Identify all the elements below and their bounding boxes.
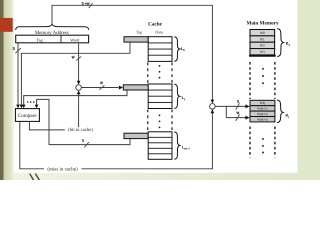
Bj row W4j+1: [250, 106, 275, 111]
svg-text:Cache: Cache: [148, 22, 163, 28]
node N2 circle: [210, 104, 216, 110]
svg-text:W(4j+2): W(4j+2): [257, 112, 267, 116]
brace L0: [174, 37, 180, 61]
svg-text:W(4j+1): W(4j+1): [257, 107, 267, 111]
B0 row W1: [250, 36, 275, 42]
left sage stripe: [4, 0, 14, 180]
dashed MM column upper: [250, 62, 275, 99]
divider tag/word: [60, 35, 62, 43]
dots MM upper: [262, 68, 264, 70]
left dark olive stripe: [0, 0, 4, 180]
B0 bottom bar: [249, 55, 276, 57]
slash s on Lm-1 wire: [84, 142, 89, 147]
slide background green: [0, 0, 320, 180]
svg-text:Data: Data: [155, 30, 163, 35]
wire word field down: [78, 43, 80, 81]
slash w bottom branch: [236, 115, 240, 121]
B0 row W3: [250, 49, 275, 55]
svg-text:j: j: [287, 115, 289, 119]
svg-text:j: j: [183, 97, 185, 101]
svg-text:W3: W3: [260, 50, 265, 54]
brace Bj: [277, 100, 283, 123]
Bj row W4j: [250, 100, 275, 105]
brace Lm-1: [174, 132, 180, 159]
B0 row W2: [250, 42, 275, 48]
arrow Lm-1 into compare: [35, 105, 39, 109]
dashed MM column lower: [250, 127, 275, 158]
B0 row W0: [250, 30, 275, 36]
slash w: [76, 56, 81, 60]
svg-text:Compare: Compare: [18, 113, 37, 119]
red accent square: [0, 18, 13, 32]
wire fork top branch: [226, 105, 245, 107]
Bj row W4j+2: [250, 111, 275, 116]
wire hit output: [29, 122, 64, 130]
arrow into node N1 top: [77, 81, 81, 85]
wire N2 to fork: [215, 106, 226, 117]
dots cache lower: [159, 115, 161, 117]
cache L0 tag cell: [124, 37, 148, 42]
right green strip: [297, 0, 320, 180]
arrow s into compare: [16, 105, 20, 109]
svg-text:m–1: m–1: [184, 147, 190, 151]
dots MM lower: [262, 138, 264, 140]
wire L0 tag to compare: [21, 43, 130, 105]
wire miss output: [20, 110, 213, 169]
wire Lm-1 tag to compare: [37, 99, 130, 144]
cache Lj tag cell: [123, 85, 148, 90]
label s on Lm-1 wire: [82, 139, 84, 142]
arrow Lj into compare: [22, 105, 25, 109]
svg-text:Tag: Tag: [36, 38, 43, 43]
svg-text:W0: W0: [260, 31, 265, 35]
dashed cache column upper: [148, 62, 172, 83]
svg-text:Tag: Tag: [136, 30, 142, 35]
compare box: [15, 109, 39, 122]
brace B0: [277, 29, 283, 57]
svg-text:Word: Word: [70, 38, 80, 43]
svg-text:W(4j+3): W(4j+3): [257, 118, 267, 122]
wire s+w bus: [52, 5, 212, 102]
Lj data row lines: [148, 90, 172, 102]
cache L0 data box: [148, 37, 172, 62]
arrow into node N2 bottom: [211, 109, 215, 113]
svg-text:W1: W1: [260, 37, 265, 41]
label s of s+w: [82, 2, 84, 5]
arrow top branch into Bj: [245, 104, 249, 108]
wire fork bottom branch: [226, 117, 245, 119]
cache Lm-1 tag cell: [124, 133, 148, 138]
label s on top branch: [237, 100, 239, 103]
wire N1 to Lj tag: [81, 87, 118, 89]
arrow bottom branch into Bj: [245, 116, 249, 120]
dashed cache column lower: [148, 110, 172, 131]
decorative slashes bottom-left: [30, 174, 40, 181]
cache Lm-1 data box: [148, 132, 172, 160]
label w on N1 right wire: [100, 82, 103, 84]
label plus of s+w: [85, 3, 87, 5]
wire N1 down to hit label: [78, 94, 80, 127]
slash w on N1 right: [99, 85, 104, 89]
wire Lj tag to compare: [24, 90, 127, 105]
svg-text:(hit in cache): (hit in cache): [68, 127, 93, 133]
label w on word wire: [72, 56, 75, 58]
node N1 circle: [76, 85, 82, 91]
dots cache upper: [159, 65, 161, 67]
L0 data row lines: [148, 43, 172, 55]
label s on tag wire: [13, 47, 15, 50]
memory address box: [16, 35, 89, 43]
cache Lj data box: [148, 84, 172, 109]
label w of s+w: [87, 2, 90, 4]
white content area: [14, 0, 298, 173]
svg-text:(miss in cache): (miss in cache): [47, 167, 78, 173]
svg-text:Main Memory: Main Memory: [246, 20, 279, 26]
brace Lj: [174, 84, 180, 108]
slash s top branch: [236, 103, 240, 109]
label w on bottom branch: [237, 112, 240, 114]
arrow L0 into compare: [20, 105, 24, 109]
Lm-1 data row lines: [148, 137, 172, 154]
arrow into Lj tag cell: [119, 86, 123, 90]
white pad under miss label: [44, 166, 82, 172]
arrow into node N1 bottom: [77, 90, 81, 94]
slash s+w: [89, 3, 93, 8]
svg-text:W4j: W4j: [260, 101, 266, 105]
wire s from tag to compare: [17, 43, 19, 105]
brace memory address: [16, 24, 89, 30]
svg-text:W2: W2: [260, 44, 265, 48]
arrow into node N2 top: [211, 100, 215, 104]
dots above compare: [27, 101, 29, 103]
slash s: [15, 48, 20, 53]
Bj row W4j+3: [250, 117, 275, 122]
